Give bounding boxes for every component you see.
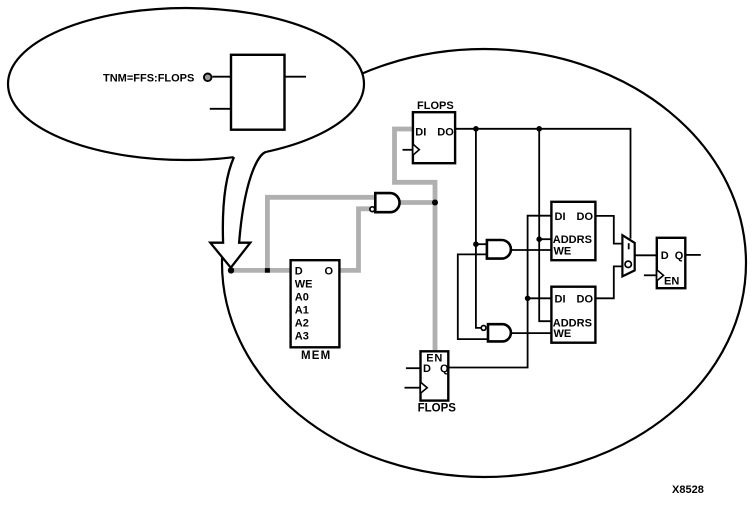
- RAM block U4 (upper DI/ADDRS/WE): [551, 202, 595, 260]
- bubble tail and arrow outline: [210, 152, 266, 268]
- svg-text:A1: A1: [295, 305, 309, 317]
- wire: AND U2 input 1: [476, 243, 487, 245]
- AND gate U1 with inverted input: [370, 193, 400, 212]
- junction dot RAM1 ADDRS tap: [536, 236, 542, 242]
- wire gray net: FLOPS DI feed and down to bottom FLOPS: [395, 129, 436, 351]
- wire: AND U3 output to RAM2 WE: [511, 332, 552, 334]
- wire: flip-flop U6 Q output stub: [685, 254, 701, 256]
- svg-text:DO: DO: [577, 211, 594, 223]
- svg-text:EN: EN: [664, 275, 679, 287]
- flip-flop block FLOPS (bottom): [418, 351, 457, 414]
- svg-text:WE: WE: [554, 245, 572, 257]
- svg-text:D: D: [423, 363, 431, 375]
- svg-text:DO: DO: [577, 293, 594, 305]
- wire: mux output to flip-flop U6 D: [635, 254, 657, 256]
- svg-text:WE: WE: [295, 279, 313, 291]
- svg-text:ADDRS: ADDRS: [553, 234, 592, 246]
- svg-text:O: O: [325, 265, 334, 277]
- junction dot RAM2 DI tap: [525, 296, 531, 302]
- wire: DI net from bottom FLOPS Q up to RAM1 DI: [448, 216, 551, 368]
- wire: DI net tap to RAM2 DI: [528, 297, 552, 299]
- flip-flop symbol inside bubble: [210, 55, 306, 130]
- junction dot on gray net at AND U1 output: [432, 200, 438, 206]
- svg-text:A0: A0: [295, 292, 309, 304]
- wire: flip-flop U6 EN stub: [644, 274, 657, 276]
- junction dot node DO-ADDRS: [536, 126, 542, 132]
- flip-flop U6 (D Q with EN): [657, 238, 686, 288]
- wire: top FLOPS clock stub: [403, 149, 413, 151]
- svg-text:D: D: [295, 265, 303, 277]
- wire: ADDRS net vertical from DO line to RAM2 ADDRS: [539, 129, 551, 321]
- svg-text:Q: Q: [675, 250, 684, 262]
- AND gate U3 with inverted input: [481, 324, 511, 341]
- junction dot node DO-AND2: [473, 126, 479, 132]
- wire: RAM1 DO to mux input 1: [595, 216, 622, 244]
- wire: AND U2 output to RAM1 WE: [511, 249, 552, 251]
- svg-text:Q: Q: [440, 363, 449, 375]
- svg-text:FLOPS: FLOPS: [417, 100, 454, 112]
- big ellipse (schematic boundary): [222, 49, 746, 477]
- wire: AND U2 input 2 down to AND U3 input 2: [458, 254, 488, 339]
- flip-flop block FLOPS (top): [413, 100, 455, 163]
- svg-text:WE: WE: [554, 328, 572, 340]
- attribute dot (gray circle): [204, 74, 212, 82]
- wire gray net: AND U1 output to junction: [399, 200, 435, 205]
- svg-text:MEM: MEM: [301, 350, 331, 362]
- RAM block U5 (lower DI/ADDRS/WE): [551, 287, 595, 343]
- wire gray net: node to MEM D input: [231, 268, 291, 273]
- svg-text:FLOPS: FLOPS: [418, 403, 457, 415]
- svg-text:DI: DI: [555, 293, 566, 305]
- mux M1: [622, 235, 634, 276]
- svg-text:DI: DI: [555, 211, 566, 223]
- speech bubble ellipse: [8, 8, 364, 160]
- svg-text:D: D: [661, 250, 669, 262]
- wire: bottom FLOPS clock stub: [405, 387, 421, 389]
- svg-text:X8528: X8528: [672, 484, 704, 496]
- junction dot AND U2 input tap: [473, 241, 479, 247]
- svg-text:A2: A2: [295, 318, 309, 330]
- memory block MEM: [291, 260, 340, 362]
- svg-text:A3: A3: [295, 331, 309, 343]
- svg-text:DI: DI: [415, 126, 426, 138]
- wire: vertical from DO line to AND U2 and AND U3 inverted input: [476, 129, 481, 328]
- node dot (tagged net point): [228, 267, 234, 273]
- wire: FLOPS DO bus to mux select: [455, 129, 630, 239]
- svg-text:DO: DO: [437, 126, 454, 138]
- wire gray net: MEM O output to AND U1 inverted input: [339, 209, 370, 271]
- svg-text:TNM=FFS:FLOPS: TNM=FFS:FLOPS: [103, 73, 194, 85]
- wire: RAM2 DO to mux input 0: [595, 266, 622, 298]
- junction square on gray net at MEM D: [265, 268, 270, 273]
- wire gray net: node up and over to AND U1 input 1: [267, 197, 375, 270]
- wire: bottom FLOPS D stub: [406, 367, 421, 369]
- bubble tail and arrow fill mask: [210, 150, 268, 268]
- wire: ADDRS net tap to RAM1 ADDRS: [539, 238, 551, 240]
- AND gate U2: [487, 240, 511, 259]
